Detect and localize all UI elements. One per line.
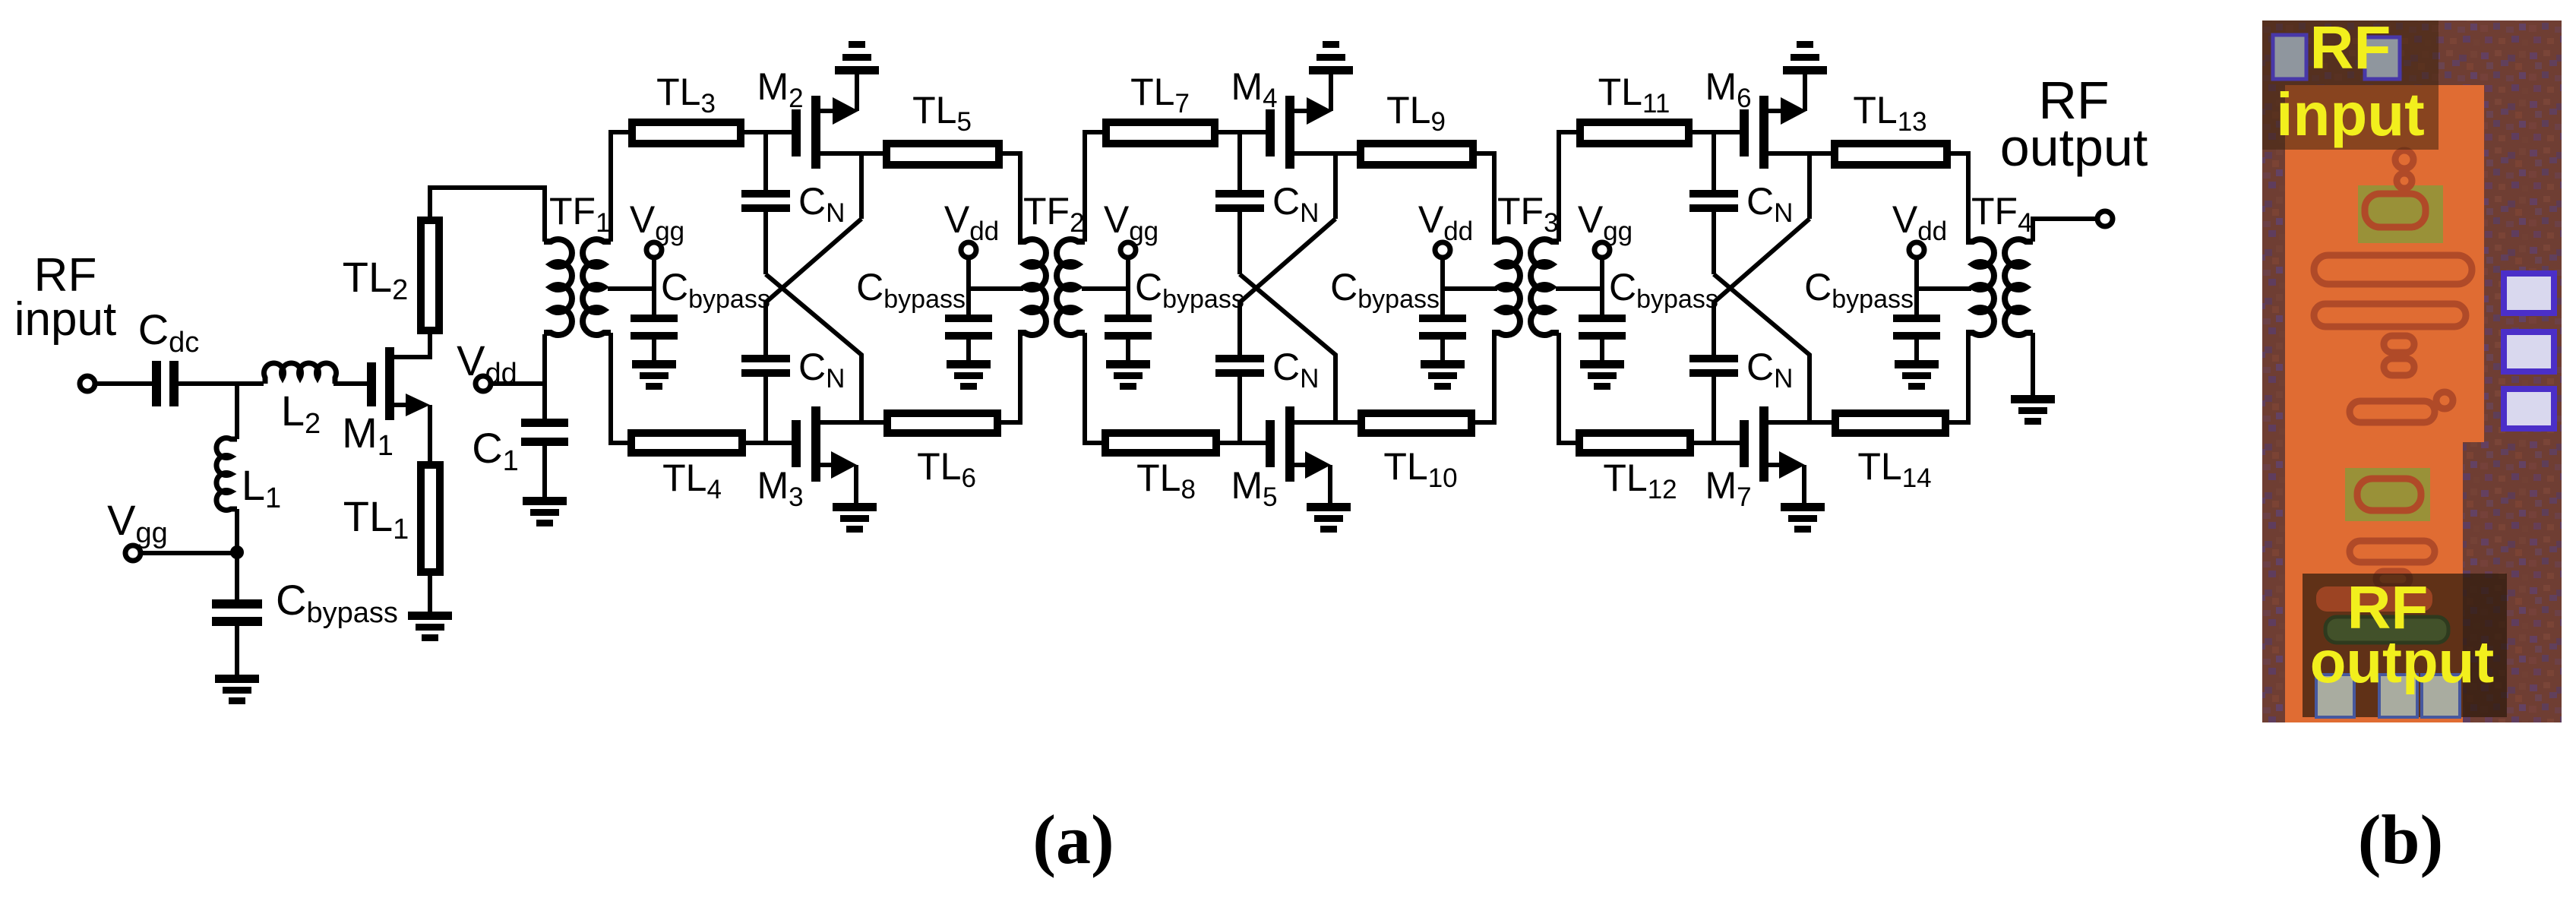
chip metal structures (2314, 150, 2472, 586)
M7 drain wire (1768, 420, 1832, 425)
ground Vdd stage 3 (1895, 360, 1939, 390)
svg-text:RF: RF (2310, 14, 2391, 81)
capacitor CN bottom stage 2 (1215, 346, 1319, 394)
figure label (b) (2358, 801, 2443, 878)
transmission line TL10 (1361, 413, 1471, 493)
cross wire gate-to-drain (1240, 274, 1335, 422)
wire TL12 to M7 gate (1694, 441, 1740, 445)
ground C1 (523, 497, 567, 526)
transformer TF4 secondary winding (2005, 239, 2033, 335)
capacitor Cbypass (Vdd) stage 2 (1330, 266, 1466, 340)
chip RF input label area (2262, 14, 2439, 150)
M1 source wire (394, 394, 430, 461)
transmission line TL7 (1106, 71, 1215, 144)
M2 drain wire (820, 151, 883, 156)
ground TF4 secondary (2011, 395, 2055, 425)
ground TL1 (408, 612, 452, 641)
Vdd1 terminal (457, 337, 517, 391)
cross wire gate-to-drain (1714, 274, 1810, 422)
TF1 secondary bottom lead (611, 333, 630, 443)
wire TL1 to ground (428, 576, 432, 612)
transformer TF1 secondary winding (583, 239, 611, 335)
ground above M6 (1783, 41, 1827, 74)
wire TL6 to TF2 primary (1001, 333, 1020, 422)
wire Cbypass to ground (Vgg) stage 3 (1600, 340, 1604, 360)
wire Cbypass to ground (Vdd) stage 2 (1440, 340, 1445, 360)
wire Vdd1 to C1 node (491, 381, 545, 386)
capacitor Cdc (138, 305, 200, 406)
wire gate node to CN top (1237, 132, 1242, 190)
chip bottom pads (2316, 675, 2354, 717)
transmission line TL9 (1361, 89, 1473, 165)
M4 drain wire (1294, 151, 1357, 156)
cross wire drain-to-gate (1714, 219, 1810, 355)
TF2 secondary center tap (1082, 286, 1128, 291)
wire Cbypass to ground (235, 626, 239, 675)
transformer TF3 primary winding (1492, 239, 1520, 335)
Vgg stem stage 2 (1126, 258, 1130, 315)
capacitor Cbypass (Vgg) stage 2 (1105, 266, 1244, 340)
Vdd stem stage 3 (1914, 258, 1919, 315)
wire Vgg terminal to node (141, 551, 237, 555)
inductor L2 (264, 363, 337, 440)
wire M2 drain down (859, 153, 864, 219)
M6 drain wire (1768, 151, 1831, 156)
Vgg terminal stage 2 (1104, 198, 1158, 258)
wire TL4 to M3 gate (746, 441, 792, 445)
TF4 secondary bottom lead (2031, 333, 2035, 395)
wire M6 drain down (1807, 153, 1812, 219)
RF input terminal (14, 249, 116, 391)
wire Cbypass to ground (Vgg) stage 2 (1126, 340, 1130, 360)
wire TL3 to M2 gate (744, 130, 792, 134)
node A vertical wire (235, 384, 239, 439)
wire TL9 to TF3 primary (1477, 153, 1494, 242)
wire TL5 to TF2 primary (1003, 153, 1020, 242)
transmission line TL6 (887, 413, 997, 493)
capacitor CN bottom stage 1 (741, 346, 845, 394)
transistor M7 (1705, 406, 1768, 512)
capacitor CN top stage 1 (741, 180, 845, 228)
ground below M7 (1781, 503, 1825, 533)
transmission line TL12 (1579, 433, 1690, 504)
M1 drain wire (394, 334, 430, 357)
Vdd tap to TF2 primary (969, 286, 1023, 291)
wire TL2 to TF1 (430, 188, 545, 242)
Vgg stem stage 3 (1600, 258, 1604, 315)
wire TL13 to TF4 primary (1951, 153, 1968, 242)
ground Vgg stage 2 (1106, 360, 1150, 390)
Vdd tap to TF4 primary (1917, 286, 1971, 291)
M7 source wire (1768, 451, 1805, 503)
ground below M3 (833, 503, 877, 533)
wire TL8 to M5 gate (1220, 441, 1266, 445)
transmission line TL11 (1580, 71, 1689, 144)
transformer TF2 secondary winding (1057, 239, 1085, 335)
wire TL14 to TF4 primary (1949, 333, 1968, 422)
Vdd stem stage 1 (966, 258, 971, 315)
wire CN top to cross (763, 212, 768, 274)
wire node to Cbypass (235, 552, 239, 599)
TF4 secondary top lead (2033, 219, 2097, 242)
svg-text:output: output (2310, 628, 2495, 695)
transformer TF1 primary winding (544, 239, 572, 335)
capacitor CN top stage 3 (1689, 180, 1793, 228)
svg-text:input: input (2276, 81, 2424, 148)
capacitor C1 (472, 419, 568, 477)
TF2 secondary top lead (1085, 132, 1104, 242)
chip micrograph photo (2262, 21, 2562, 722)
ground above M2 (835, 41, 879, 74)
ground Vdd stage 1 (947, 360, 991, 390)
wire CN bottom to M7 gate (1712, 377, 1716, 443)
node Vgg junction (230, 545, 244, 559)
wire input to Cdc (96, 381, 152, 386)
chip RF output label area (2303, 574, 2507, 717)
transistor M1 (342, 347, 394, 462)
transmission line TL13 (1835, 89, 1947, 165)
wire C1 to ground (542, 446, 547, 497)
TF2 secondary bottom lead (1085, 333, 1104, 443)
transformer TF4 label (1971, 190, 2033, 238)
Vgg terminal stage 1 (630, 198, 684, 258)
wire TL11 to M6 gate (1693, 130, 1740, 134)
transmission line TL3 (632, 71, 741, 144)
cross wire drain-to-gate (1240, 219, 1335, 355)
transmission line TL14 (1835, 413, 1945, 493)
ground Vgg stage 3 (1580, 360, 1624, 390)
wire TL7 to M4 gate (1218, 130, 1266, 134)
M4 source wire (1294, 74, 1332, 125)
wire TF1 primary to C1 (542, 334, 547, 419)
cross wire drain-to-gate (766, 219, 861, 355)
transformer TF1 label (549, 190, 611, 238)
Vgg terminal stage 3 (1578, 198, 1633, 258)
capacitor Cbypass (Vdd) stage 1 (856, 266, 992, 340)
figure label (a) (1032, 801, 1114, 878)
TF3 secondary top lead (1559, 132, 1578, 242)
capacitor CN bottom stage 3 (1689, 346, 1793, 394)
transmission line TL1 (343, 465, 440, 572)
Vdd terminal stage 3 (1892, 198, 1947, 258)
transformer TF3 label (1497, 190, 1559, 238)
transistor M4 (1231, 65, 1294, 169)
svg-text:input: input (14, 293, 116, 346)
wire Cbypass to ground (Vgg) stage 1 (652, 340, 656, 360)
capacitor Cbypass (Vgg) stage 3 (1579, 266, 1718, 340)
inductor L1 (217, 438, 281, 515)
Vgg stem stage 1 (652, 258, 656, 315)
ground Vgg stage 1 (632, 360, 676, 390)
capacitor Cbypass (Vgg) stage 1 (631, 266, 770, 340)
ground below M5 (1307, 503, 1351, 533)
transformer TF4 primary winding (1966, 239, 1994, 335)
transformer TF2 label (1023, 190, 1085, 238)
wire L2 to M1 gate (333, 381, 367, 386)
capacitor CN top stage 2 (1215, 180, 1319, 228)
capacitor Cbypass (Vdd) stage 3 (1804, 266, 1940, 340)
transmission line TL5 (887, 89, 999, 165)
M2 source wire (820, 74, 858, 125)
Vdd terminal stage 2 (1418, 198, 1473, 258)
Vdd stem stage 2 (1440, 258, 1445, 315)
M6 source wire (1768, 74, 1806, 125)
svg-text:output: output (2000, 118, 2148, 177)
RF output terminal (2000, 71, 2148, 226)
wire CN bottom to M5 gate (1237, 377, 1242, 443)
M3 drain wire (820, 420, 883, 425)
wire CN top to cross (1237, 212, 1242, 274)
TF3 secondary center tap (1556, 286, 1602, 291)
capacitor Cbypass input (212, 576, 398, 629)
wire L1 to Vgg node (235, 509, 239, 552)
wire CN top to cross (1712, 212, 1716, 274)
ground input Cbypass (215, 675, 259, 704)
Vdd tap to TF3 primary (1443, 286, 1497, 291)
ground above M4 (1309, 41, 1353, 74)
M5 drain wire (1294, 420, 1358, 425)
cross wire gate-to-drain (766, 274, 861, 422)
M5 source wire (1294, 451, 1331, 503)
Vgg input terminal (107, 496, 168, 561)
transistor M3 (757, 406, 820, 512)
ground Vdd stage 2 (1421, 360, 1465, 390)
TF1 secondary top lead (611, 132, 630, 242)
wire TL10 to TF3 primary (1475, 333, 1494, 422)
chip right pads (2504, 273, 2554, 428)
transmission line TL4 (631, 433, 742, 504)
transmission line TL2 (343, 220, 439, 330)
transformer TF2 primary winding (1018, 239, 1046, 335)
chip orange core area (2285, 85, 2484, 722)
wire M4 drain down (1333, 153, 1338, 219)
wire gate node to CN top (763, 132, 768, 190)
TF3 secondary bottom lead (1559, 333, 1578, 443)
transmission line TL8 (1105, 433, 1216, 504)
wire Cbypass to ground (Vdd) stage 3 (1914, 340, 1919, 360)
M3 source wire (820, 451, 857, 503)
transformer TF3 secondary winding (1531, 239, 1559, 335)
transistor M2 (757, 65, 820, 169)
transistor M5 (1231, 406, 1294, 512)
transistor M6 (1705, 65, 1768, 169)
wire CN bottom to M3 gate (763, 377, 768, 443)
wire gate node to CN top (1712, 132, 1716, 190)
Vdd terminal stage 1 (944, 198, 999, 258)
wire Cbypass to ground (Vdd) stage 1 (966, 340, 971, 360)
svg-text:(a): (a) (1032, 801, 1114, 878)
svg-text:(b): (b) (2358, 801, 2443, 878)
TF1 secondary center tap (608, 286, 654, 291)
wire Cdc to node A (179, 381, 264, 386)
